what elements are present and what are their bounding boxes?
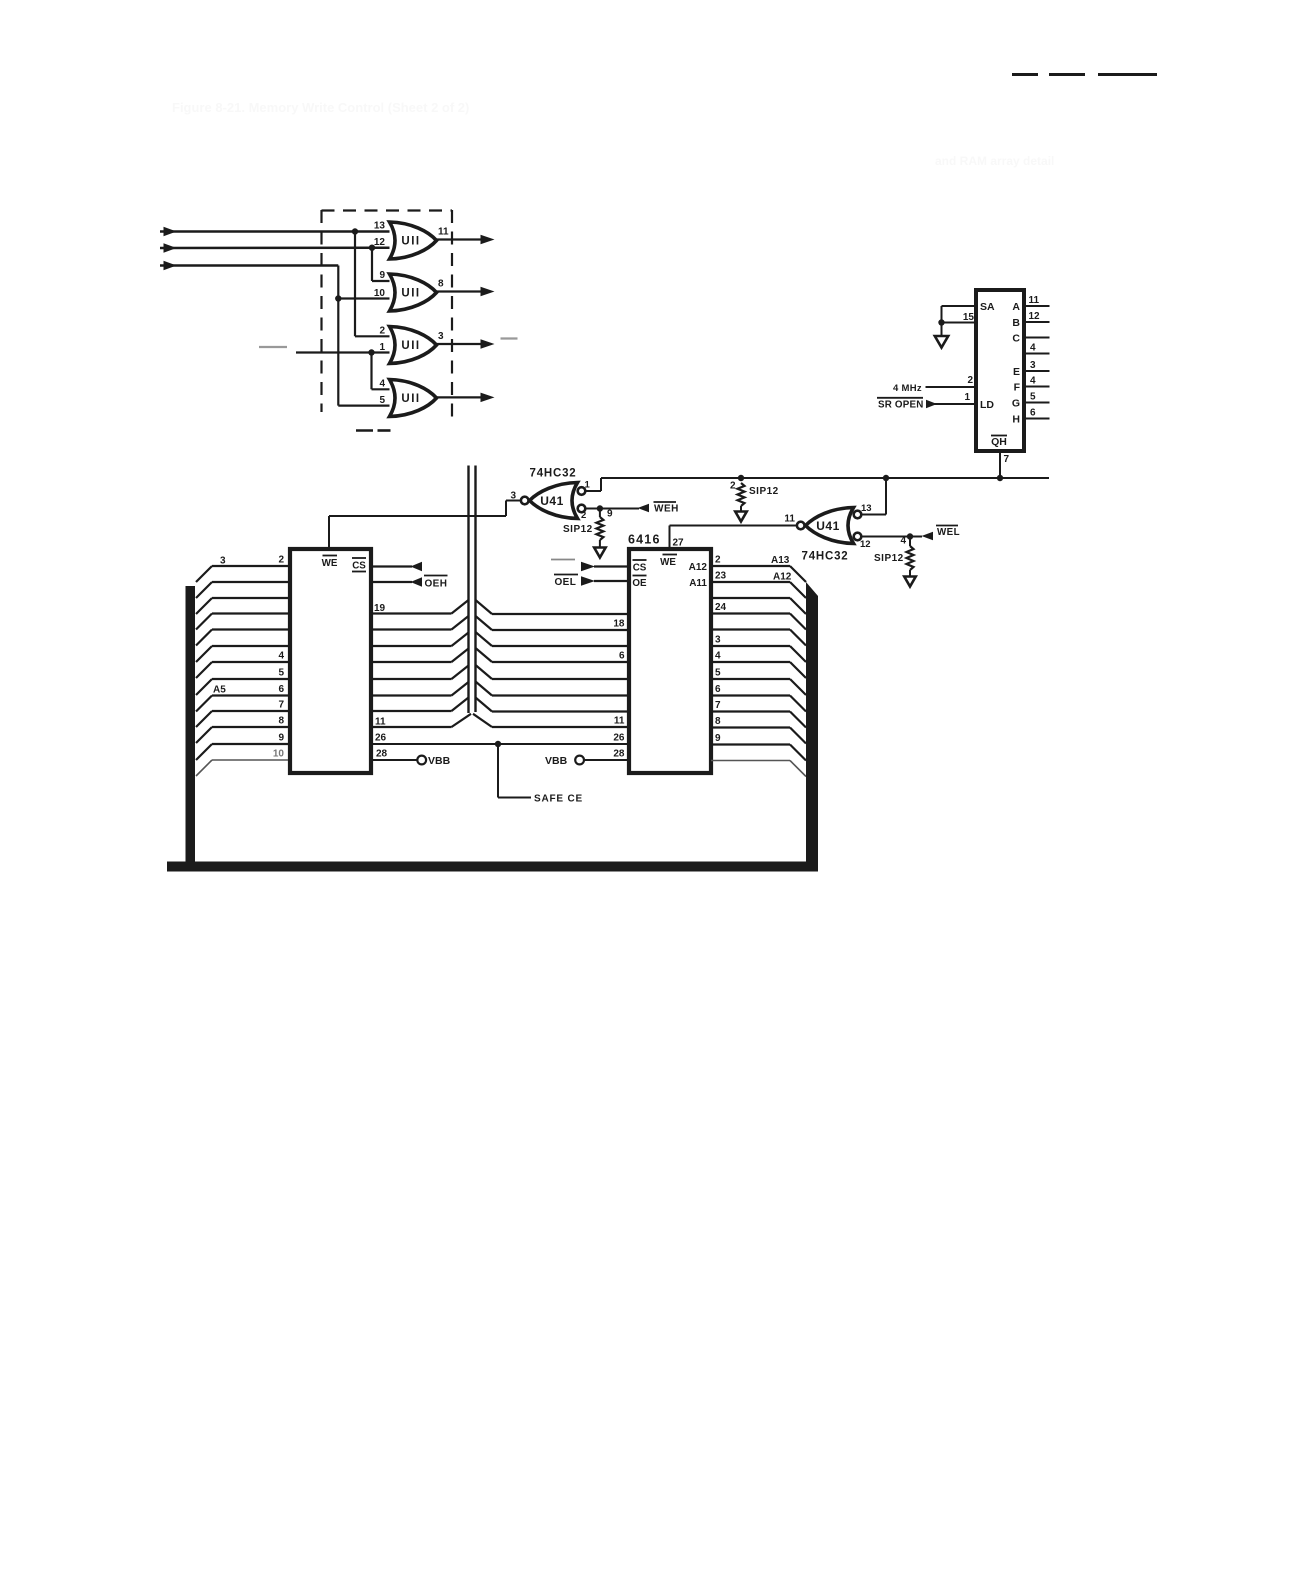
svg-text:3: 3 [220, 556, 226, 567]
node: junction input2 / gate2 branch [369, 245, 375, 251]
shift register output D pin 4 [1024, 353, 1050, 355]
wire: left RAM CS out to arrow [371, 565, 412, 567]
wire: right RAM address row 4 [711, 612, 790, 614]
wire: left RAM address row 8 [196, 679, 212, 695]
wire: U41a pin1 to main net [585, 490, 601, 492]
svg-text:OE: OE [632, 578, 647, 589]
pin 13 input bubble [854, 511, 862, 519]
pin SA wire [942, 305, 977, 307]
wire: branch down to U11 pin 4 [370, 353, 372, 390]
svg-text:VBB: VBB [545, 755, 568, 767]
svg-text:A: A [1012, 301, 1020, 313]
wire: right RAM data row D7 [473, 714, 492, 727]
wire: U41b pin11 output to 6416 WE pin 27 [670, 525, 797, 527]
svg-text:F: F [1014, 382, 1021, 394]
svg-text:13: 13 [374, 221, 386, 232]
wire: left RAM address row 4 [196, 614, 212, 630]
svg-text:6: 6 [1030, 408, 1036, 419]
svg-text:12: 12 [860, 539, 871, 550]
dashed box bottom dash 1 [356, 429, 373, 432]
ground: open arrow under SIP12-2 [735, 512, 747, 522]
svg-text:4: 4 [900, 536, 906, 547]
svg-text:and RAM array detail: and RAM array detail [935, 154, 1054, 168]
wire: U41b pin12 to WEL [861, 536, 922, 538]
RAM chip U? 6416 (right bank) [629, 549, 711, 773]
svg-text:G: G [1012, 398, 1020, 410]
wire: U11 output 8 [437, 290, 482, 292]
svg-text:WE: WE [322, 558, 338, 569]
wire: left RAM address row 1 [196, 566, 212, 582]
svg-text:SIP12: SIP12 [874, 553, 904, 564]
svg-text:B: B [1012, 317, 1020, 329]
pin 1 input bubble [578, 487, 586, 495]
svg-text:26: 26 [613, 733, 625, 744]
svg-text:5: 5 [1030, 392, 1036, 403]
svg-text:4: 4 [715, 651, 721, 662]
wire: left RAM address row 10 [196, 711, 212, 727]
wire: U11 output gate4 [437, 396, 482, 398]
or-gate U41 section b (74HC32) [806, 508, 854, 544]
wire: left RAM data row D4 [371, 678, 452, 680]
svg-text:27: 27 [673, 538, 685, 549]
svg-text:CS: CS [633, 563, 647, 574]
wire: left RAM data row D1 [371, 628, 452, 630]
ground symbol [941, 323, 943, 337]
ground: open arrow under SIP12-9 [594, 548, 606, 558]
RAM chip (left bank, 6416) [290, 549, 371, 773]
svg-text:12: 12 [374, 237, 386, 248]
svg-text:11: 11 [614, 716, 625, 727]
svg-text:QH: QH [991, 436, 1007, 448]
svg-text:12: 12 [1029, 311, 1041, 322]
wire: right RAM address row 3 [711, 597, 790, 599]
svg-text:74HC32: 74HC32 [802, 551, 849, 563]
svg-text:A12: A12 [689, 562, 708, 573]
wire: U11 output 3 [437, 343, 482, 345]
input wire 1 (to U11 pin 13) [164, 227, 177, 237]
wire: left RAM address row 11 [196, 727, 212, 743]
svg-text:UII: UII [401, 340, 420, 352]
svg-text:4: 4 [278, 651, 284, 662]
svg-text:3: 3 [438, 331, 444, 342]
svg-text:1: 1 [379, 342, 385, 353]
svg-text:C: C [1012, 333, 1020, 345]
wire: SAFE CE tap [497, 744, 499, 798]
wire: U11 output 11 [437, 238, 482, 240]
or-gate U11 section b [390, 274, 437, 311]
svg-text:1: 1 [964, 392, 970, 403]
wire: right RAM data row D2 [476, 632, 493, 646]
svg-text:23: 23 [715, 571, 727, 582]
svg-text:28: 28 [613, 749, 625, 760]
svg-text:5: 5 [379, 395, 385, 406]
node: junction input3 / gate2 pin10 branch [335, 295, 341, 301]
svg-text:CS: CS [352, 561, 366, 572]
svg-text:13: 13 [861, 503, 872, 514]
svg-text:A13: A13 [771, 555, 790, 566]
svg-text:15: 15 [963, 312, 975, 323]
svg-text:28: 28 [376, 749, 388, 760]
wire: left RAM address row 3 [196, 598, 212, 614]
wire: U11 pin 1 input [296, 351, 390, 353]
svg-text:7: 7 [278, 700, 284, 711]
VBB terminal (left) [417, 756, 426, 765]
ground: open arrow under SIP12-4 [904, 577, 916, 587]
wire: left RAM address row 13 [196, 760, 212, 776]
faded dash left of pin 1 [259, 346, 287, 348]
wire: right RAM address row 12 [711, 743, 790, 745]
svg-text:6: 6 [278, 684, 284, 695]
wire: left RAM address row 6 [196, 646, 212, 662]
svg-text:2: 2 [730, 481, 736, 492]
ground/common bottom bar [167, 862, 818, 872]
svg-text:18: 18 [613, 619, 625, 630]
or-gate U11 section a [390, 222, 437, 259]
wire: left RAM address row 2 [196, 582, 212, 598]
or-gate U11 section c [390, 327, 437, 364]
header dash 1 [1012, 73, 1038, 76]
wire: right RAM address row 13 [711, 760, 790, 762]
dashed enclosure box U11 [320, 210, 322, 412]
svg-text:OEL: OEL [555, 577, 577, 588]
svg-text:9: 9 [379, 270, 385, 281]
svg-text:5: 5 [278, 668, 284, 679]
resistor SIP12 (pin 9) [599, 509, 601, 518]
svg-text:OEH: OEH [425, 579, 448, 590]
wire: left RAM data row D2 [371, 645, 452, 647]
svg-text:19: 19 [374, 603, 386, 614]
wire: main WE net horizontal [601, 477, 1049, 479]
signal arrow OEH [371, 581, 412, 583]
wire: right RAM data row D4 [476, 665, 493, 679]
svg-text:A5: A5 [213, 685, 226, 696]
svg-text:UII: UII [401, 236, 420, 248]
svg-text:2: 2 [581, 510, 586, 521]
svg-text:E: E [1013, 366, 1020, 378]
wire: left RAM address row 9 [196, 696, 212, 712]
VBB terminal (right) [575, 756, 584, 765]
svg-text:11: 11 [1029, 295, 1040, 306]
svg-text:2: 2 [278, 555, 284, 566]
svg-text:26: 26 [375, 733, 387, 744]
svg-text:11: 11 [375, 717, 386, 728]
wire: U41a pin3 output to left RAM WE [506, 500, 521, 502]
svg-text:10: 10 [273, 749, 285, 760]
left address bus bar [186, 586, 196, 872]
node: SA/15 junction [938, 319, 944, 325]
wire: right RAM address row 7 [711, 661, 790, 663]
pin 11 output bubble [797, 522, 805, 530]
wire: input2 branch down to U11 pin 9 [371, 248, 373, 281]
svg-text:UII: UII [401, 393, 420, 405]
input wire 3 (to U11 pins 10 and 5) [164, 261, 177, 271]
wire: left RAM data row D0 [371, 612, 452, 614]
wire: left RAM data row D6 [371, 710, 452, 712]
svg-text:11: 11 [784, 514, 795, 525]
wire: right RAM address row 1 [711, 565, 790, 567]
wire: right RAM address row 10 [711, 710, 790, 712]
wire: branch down to U41 pin 13 [885, 478, 887, 515]
node: junction SIP12-4 [907, 533, 913, 539]
svg-text:WEH: WEH [654, 504, 679, 515]
svg-text:9: 9 [607, 509, 613, 520]
wire: right RAM address row 5 [711, 628, 790, 630]
svg-text:7: 7 [1004, 454, 1010, 465]
svg-text:6: 6 [715, 684, 721, 695]
node: junction SIP12-2/net [738, 475, 744, 481]
faded dash right of gate output 3 [501, 337, 518, 339]
svg-text:SIP12: SIP12 [749, 486, 779, 497]
wire: right RAM data row D1 [476, 616, 493, 630]
wire: left RAM data row D5 [371, 694, 452, 696]
node: junction SIP12-9 [597, 505, 603, 511]
svg-text:7: 7 [715, 700, 721, 711]
wire: right RAM address row 6 [711, 645, 790, 647]
svg-text:U41: U41 [540, 494, 564, 508]
signal arrow WEL [922, 532, 934, 541]
wire: left RAM data row D3 [371, 661, 452, 663]
wire: input1 branch down to U11 pin 2 [354, 232, 356, 337]
svg-text:2: 2 [967, 375, 973, 386]
svg-text:1: 1 [585, 480, 591, 491]
pin 12 input bubble [854, 533, 862, 541]
signal arrow WEH [638, 504, 650, 513]
svg-text:4: 4 [1030, 343, 1036, 354]
pin 3 output bubble [521, 497, 529, 505]
wire: left RAM data row D7 [371, 726, 452, 728]
svg-text:10: 10 [374, 288, 386, 299]
svg-text:LD: LD [980, 399, 994, 411]
svg-text:A11: A11 [689, 578, 707, 589]
wire: right RAM address row 8 [711, 678, 790, 680]
dashed box bottom dash 2 [378, 429, 391, 432]
wire: right RAM address row 11 [711, 726, 790, 728]
pin 2 input bubble [578, 505, 586, 513]
svg-text:5: 5 [715, 668, 721, 679]
svg-text:2: 2 [379, 325, 385, 336]
svg-text:24: 24 [715, 602, 727, 613]
wire: left RAM address row 12 [196, 744, 212, 760]
svg-text:WEL: WEL [937, 527, 960, 538]
svg-text:8: 8 [438, 279, 444, 290]
svg-text:SA: SA [980, 301, 995, 313]
node: junction pin1 / gate4 branch [368, 349, 374, 355]
svg-text:SR OPEN: SR OPEN [878, 400, 924, 411]
wire: right RAM data row D6 [476, 698, 493, 712]
wire: U41a pin2 to WEH [585, 508, 639, 510]
svg-text:UII: UII [401, 288, 420, 300]
shift register IC (74165-type) [976, 290, 1024, 451]
right address bus bar [806, 582, 818, 872]
svg-text:4: 4 [1030, 376, 1036, 387]
node: junction input1 / gate3 branch [352, 228, 358, 234]
data bus vertical pair [467, 466, 469, 714]
header dash 3 [1098, 73, 1157, 76]
svg-text:SIP12: SIP12 [563, 524, 593, 535]
svg-text:Figure 8-21. Memory Write Con: Figure 8-21. Memory Write Control (Sheet… [172, 100, 469, 115]
svg-text:6416: 6416 [628, 533, 661, 547]
svg-text:9: 9 [715, 733, 721, 744]
wire: right RAM data row D0 [476, 600, 493, 614]
svg-text:VBB: VBB [428, 755, 451, 767]
node: junction U41 pin13 branch [883, 475, 889, 481]
svg-text:3: 3 [1030, 360, 1036, 371]
svg-text:U41: U41 [816, 519, 840, 533]
input wire 2 (to U11 pin 12) [164, 243, 177, 253]
wire: left RAM address row 7 [196, 662, 212, 678]
svg-text:9: 9 [278, 733, 284, 744]
wire: right RAM data row D5 [476, 682, 493, 696]
wire: left RAM address row 5 [196, 630, 212, 646]
wire: right RAM address row 9 [711, 694, 790, 696]
svg-text:8: 8 [715, 716, 721, 727]
header dash 2 [1049, 73, 1085, 76]
svg-text:SAFE CE: SAFE CE [534, 794, 583, 805]
svg-text:3: 3 [715, 635, 721, 646]
svg-text:2: 2 [715, 555, 721, 566]
svg-text:WE: WE [660, 557, 676, 568]
svg-text:8: 8 [278, 716, 284, 727]
node: junction QH/net [997, 475, 1003, 481]
svg-text:H: H [1012, 414, 1020, 426]
resistor SIP12 (pin 4) [909, 537, 911, 547]
svg-text:6: 6 [619, 651, 625, 662]
svg-text:74HC32: 74HC32 [530, 468, 577, 480]
or-gate U11 section d [390, 380, 437, 417]
wire: CS input with faded label [551, 559, 575, 561]
svg-text:A12: A12 [773, 572, 792, 583]
svg-text:11: 11 [438, 227, 449, 238]
wire: right RAM data row D3 [476, 648, 493, 662]
node: SAFE CE junction [495, 741, 501, 747]
svg-text:4: 4 [379, 378, 385, 389]
wire: right RAM address row 2 [711, 581, 790, 583]
svg-text:4 MHz: 4 MHz [893, 383, 922, 394]
